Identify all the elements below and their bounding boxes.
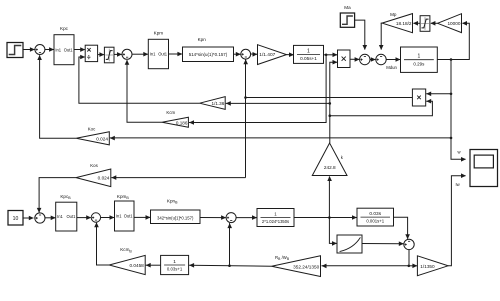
svg-text:Out1: Out1 bbox=[124, 214, 134, 219]
wire S1->Kpc bbox=[45, 47, 54, 52]
sum S3 bbox=[241, 49, 251, 59]
svg-text:1: 1 bbox=[418, 54, 421, 60]
derivative block B4 0.03s/(0.001s+1) bbox=[357, 208, 394, 226]
svg-text:0.29s: 0.29s bbox=[413, 61, 425, 66]
svg-text:242.8: 242.8 bbox=[324, 165, 336, 170]
svg-text:Ma: Ma bbox=[344, 5, 351, 10]
svg-text:0.024: 0.024 bbox=[96, 136, 108, 141]
sum SB3 bbox=[226, 213, 236, 223]
sum SB1 bbox=[35, 213, 45, 223]
wire Kos->SB1 bbox=[37, 178, 76, 213]
sum S1 bbox=[35, 45, 45, 55]
wire Sat2->Mp bbox=[413, 21, 420, 26]
svg-text:Koc: Koc bbox=[88, 127, 96, 132]
wire B4->SB4 bbox=[394, 217, 410, 239]
wire Ma->S4 bbox=[355, 20, 368, 50]
svg-text:0.03s: 0.03s bbox=[369, 211, 381, 217]
step source Step1 bbox=[7, 43, 23, 58]
transfer fcn TF4 1/(0.03s+1) right-to-left bbox=[161, 255, 189, 274]
wire G4->Scope input 2 bbox=[448, 173, 466, 265]
fcn block Kpn 514*sin(u(1)*0.157) bbox=[183, 37, 234, 62]
gain G3 1/1.36 bbox=[200, 97, 226, 110]
wire SB4 output down to node J8 feeding both gains bbox=[322, 250, 418, 269]
wire w vertical to Xemf, Koc line and Scope (nodes J3 J4) bbox=[110, 60, 466, 162]
transfer fcn TF3 1/(2*1.024*1350s) bbox=[257, 209, 294, 227]
wire TF1 output down to Kcm gain bbox=[189, 55, 326, 125]
svg-text:352.24/1350: 352.24/1350 bbox=[293, 264, 319, 269]
svg-text:1: 1 bbox=[173, 259, 176, 265]
subsystem KpmB bbox=[115, 194, 135, 231]
wire KcmB->SB2 bbox=[94, 222, 109, 265]
wire G2->Sat2 bbox=[430, 21, 437, 26]
wire SB3->TF3 bbox=[236, 215, 257, 220]
gain k 242.8 (flux gain) bbox=[312, 143, 347, 176]
svg-text:0.0458: 0.0458 bbox=[129, 263, 144, 268]
svg-text:In1: In1 bbox=[55, 47, 61, 52]
product Mult bbox=[338, 50, 351, 68]
subsystem KpcB bbox=[56, 194, 77, 231]
wire Product1->Sat1 bbox=[98, 52, 105, 57]
svg-text:0.186: 0.186 bbox=[176, 120, 188, 125]
wire KpnB->SB3 bbox=[200, 215, 226, 220]
svg-text:10000: 10000 bbox=[447, 21, 460, 26]
gain Mp 18.18/2 bbox=[382, 12, 413, 33]
wire KpcB->SB2 bbox=[77, 215, 91, 220]
sum S2 bbox=[122, 49, 132, 59]
gain KcmB 0.0458 bbox=[109, 247, 145, 274]
wire TF1->Mult (node J1) bbox=[324, 53, 338, 58]
svg-text:Kcm: Kcm bbox=[166, 110, 175, 115]
wire Step1->S1 bbox=[23, 47, 35, 52]
svg-text:0.05s+1: 0.05s+1 bbox=[300, 56, 317, 61]
wire TF4->KcmB bbox=[146, 263, 161, 268]
svg-text:Out1: Out1 bbox=[158, 52, 168, 57]
wire SB1->KpcB bbox=[45, 216, 56, 221]
svg-text:10: 10 bbox=[13, 216, 19, 222]
wire J7 riser up to gain k and down to lookup curve bbox=[327, 176, 337, 246]
svg-text:1/1.407: 1/1.407 bbox=[259, 52, 275, 58]
gain G5 352.24/1350 with label RB/WB bbox=[272, 255, 321, 277]
wire TF3->B4 with flux node J7 bbox=[294, 215, 357, 220]
wire Mult->S4 bbox=[350, 57, 360, 62]
gain Koc 0.024 bbox=[76, 127, 109, 145]
svg-text:1/1.36: 1/1.36 bbox=[212, 101, 225, 106]
saturation Sat1 bbox=[104, 47, 114, 63]
wire Koc->S1 bbox=[37, 55, 76, 138]
lookup table curve block (magnetization) bbox=[337, 235, 362, 253]
wire flux riser B: gain k output up to Mult and branches (nodes J5 J6) bbox=[226, 60, 433, 143]
constant source C10 bbox=[8, 211, 23, 226]
product (divide) block Product1 bbox=[85, 45, 97, 61]
wire Xemf output to node on S3 feedback line bbox=[244, 96, 412, 99]
gain Kos 0.024 bbox=[76, 163, 111, 186]
wire Kpm->Kpn bbox=[169, 52, 183, 57]
svg-text:In1: In1 bbox=[150, 52, 156, 57]
wire C10->SB1 bbox=[23, 216, 34, 221]
svg-text:In1: In1 bbox=[116, 214, 122, 219]
wire S3->G1 bbox=[251, 52, 258, 57]
step source Ma bbox=[340, 5, 354, 27]
svg-text:0.001s+1: 0.001s+1 bbox=[366, 219, 384, 224]
svg-text:514*sin(u(1)*0.157): 514*sin(u(1)*0.157) bbox=[189, 52, 228, 57]
scope Scope bbox=[456, 149, 498, 186]
fcn block KpnB 342*sin(u[1]*0.157) bbox=[151, 199, 201, 224]
gain G1 1/1.407 bbox=[258, 45, 287, 65]
transfer fcn TF1 1/(0.05s+1) bbox=[294, 45, 324, 63]
svg-text:Kpm: Kpm bbox=[154, 31, 164, 36]
wire KpmB->KpnB bbox=[134, 215, 151, 220]
saturation Sat2 bbox=[420, 16, 430, 32]
svg-text:In1: In1 bbox=[57, 214, 63, 219]
svg-text:1: 1 bbox=[307, 48, 310, 54]
gain G4 1/1350 bbox=[417, 256, 448, 276]
wire SB2->KpmB bbox=[101, 215, 115, 220]
sum SB2 bbox=[91, 213, 100, 222]
wire S3 feedback vertical (torque) to Kos bbox=[111, 59, 248, 180]
wire G5 output to TF4 and riser to SB3 (node J9) bbox=[189, 223, 272, 268]
svg-text:Out1: Out1 bbox=[64, 47, 74, 52]
svg-text:0.024: 0.024 bbox=[98, 176, 110, 181]
gain G2 10000 bbox=[438, 14, 462, 33]
svg-text:0.03s+1: 0.03s+1 bbox=[167, 267, 183, 272]
product Xemf bbox=[412, 89, 425, 106]
transfer fcn TF2 1/0.29s bbox=[401, 47, 438, 72]
subsystem Kpm bbox=[148, 31, 168, 69]
wire Kcm->S2 bbox=[125, 60, 162, 123]
sum SB4 bbox=[404, 239, 414, 249]
wire S4->S5 bbox=[370, 57, 376, 62]
sum S4 bbox=[360, 54, 370, 64]
svg-text:Kpc: Kpc bbox=[60, 26, 69, 31]
svg-text:342*sin(u[1]*0.157): 342*sin(u[1]*0.157) bbox=[157, 215, 194, 220]
wire S5->TF2 with label Mdun bbox=[386, 57, 400, 70]
wire S2->Kpm bbox=[132, 52, 148, 57]
wire curve->SB4 bbox=[362, 241, 404, 246]
svg-text:1/1350: 1/1350 bbox=[420, 264, 435, 269]
wire Mp->S5 bbox=[379, 23, 384, 50]
svg-text:2*1.024*1350s: 2*1.024*1350s bbox=[262, 219, 289, 224]
svg-text:Kpn: Kpn bbox=[198, 37, 207, 42]
wire Sat1->S2 bbox=[114, 52, 122, 57]
wire Kpn->S3 bbox=[234, 52, 241, 57]
sum S5 bbox=[376, 54, 386, 64]
wire G3->Product1 divider input bbox=[79, 55, 200, 103]
gain Kcm 0.186 bbox=[162, 110, 188, 127]
svg-text:Out1: Out1 bbox=[67, 214, 77, 219]
wire G1->TF1 bbox=[287, 52, 295, 57]
wire Kpc->Product1 bbox=[74, 47, 85, 52]
svg-text:18.18/2: 18.18/2 bbox=[396, 21, 412, 26]
svg-text:Mp: Mp bbox=[390, 12, 397, 17]
svg-text:Mdun: Mdun bbox=[386, 65, 397, 70]
wire TF2->G2 (speed w, node J2) bbox=[437, 21, 469, 61]
svg-text:Kos: Kos bbox=[90, 163, 98, 168]
subsystem Kpc bbox=[54, 26, 74, 64]
